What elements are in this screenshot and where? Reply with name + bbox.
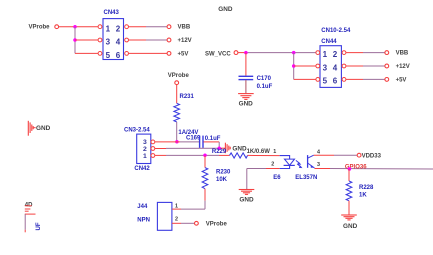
node GND (top label) — [218, 6, 233, 13]
wire SW_VCC to CN44 pin1 — [238, 52, 316, 54]
ground under R228 — [341, 215, 357, 230]
wire to CN44 pin5 — [294, 78, 316, 80]
wire J44 pin1 up to R230 — [172, 208, 205, 210]
svg-text:CN43: CN43 — [104, 10, 120, 16]
svg-text:CN42: CN42 — [134, 166, 150, 172]
wire vertical bus left of CN43 — [74, 27, 76, 54]
node VProbe (top left) — [29, 24, 59, 30]
node VProbe (middle) — [168, 73, 190, 84]
resistor R228 — [346, 181, 374, 201]
fragment 4D text — [25, 202, 33, 208]
svg-text:E6: E6 — [273, 175, 281, 181]
wire J44 pin2 to VProbe — [172, 222, 194, 224]
ground under E6 — [239, 190, 255, 204]
resistor R230 — [202, 156, 231, 210]
wire CN44 pin6 to +5V — [346, 78, 385, 80]
junction at 293.7,66 — [292, 64, 296, 68]
svg-text:VProbe: VProbe — [206, 222, 228, 228]
svg-text:5: 5 — [323, 77, 328, 86]
opto-coupler E6 : transistor side — [308, 155, 315, 168]
node +5V — [167, 51, 188, 57]
pin number 3 (E6) — [317, 162, 320, 168]
svg-text:VProbe: VProbe — [168, 73, 190, 79]
connector CN44 — [316, 28, 351, 87]
svg-text:2: 2 — [175, 217, 178, 223]
wire CN42 pin1 row to R229 — [155, 154, 230, 156]
svg-text:0.1uF: 0.1uF — [205, 136, 221, 142]
wire CN43 pin4 to +12V — [129, 39, 167, 41]
svg-text:GND: GND — [232, 145, 247, 152]
junction at 219.2,148.2 — [217, 146, 221, 150]
label E6 — [273, 175, 281, 181]
svg-text:3: 3 — [106, 38, 111, 47]
svg-text:SW_VCC: SW_VCC — [205, 52, 231, 58]
svg-text:4: 4 — [333, 63, 338, 72]
svg-text:R231: R231 — [180, 94, 195, 100]
label EL357N — [295, 175, 317, 181]
capacitor C170 — [239, 53, 273, 94]
wire R231 to junction — [176, 122, 178, 142]
svg-text:2: 2 — [143, 146, 147, 153]
svg-text:VProbe: VProbe — [29, 24, 51, 30]
svg-text:GND: GND — [36, 125, 51, 132]
junction at 75,40 — [73, 38, 77, 42]
wire CN43 pin6 to +5V — [129, 52, 167, 54]
svg-text:3: 3 — [317, 162, 320, 168]
svg-text:VBB: VBB — [396, 51, 409, 57]
junction at 293.7,52.6 — [292, 51, 296, 55]
svg-text:GND: GND — [343, 223, 358, 230]
wire CN44 pin4 to +12V — [346, 65, 385, 67]
node SW_VCC — [205, 51, 238, 58]
svg-text:J44: J44 — [137, 204, 148, 210]
wire CN42 pin3 to C169 — [155, 141, 199, 143]
node VDD33 — [357, 153, 381, 159]
svg-text:R230: R230 — [216, 169, 231, 175]
wire E6 pin4 to VDD33 — [314, 154, 357, 156]
svg-text:1: 1 — [175, 203, 178, 209]
svg-text:C169: C169 — [186, 135, 201, 141]
svg-text:UF: UF — [36, 222, 42, 230]
svg-text:VDD33: VDD33 — [362, 154, 382, 160]
junction at 205,155.5 — [203, 154, 207, 158]
wire vertical bus left of CN44 — [293, 53, 295, 80]
wire CN44 pin2 to VBB — [346, 52, 385, 54]
svg-text:+5V: +5V — [396, 77, 407, 83]
node VBB (right) — [385, 51, 409, 57]
node +5V (right) — [385, 77, 407, 83]
junction at 176.9,141.7 — [175, 140, 179, 144]
svg-text:2: 2 — [333, 50, 338, 59]
svg-text:+5V: +5V — [178, 51, 189, 57]
wire R228 to GND — [348, 201, 350, 215]
junction at 349.4,169 — [348, 167, 352, 171]
net label GPIO36 — [345, 165, 367, 171]
junction at 245.9,52.6 — [244, 51, 248, 55]
transistor J44 (NPN jumper block) — [137, 202, 172, 230]
svg-text:5: 5 — [106, 51, 111, 60]
pin numbers CN44 — [323, 50, 338, 86]
svg-text:6: 6 — [333, 77, 338, 86]
pin number 2 (J44) — [175, 217, 178, 223]
resistor R229 — [212, 149, 248, 158]
svg-text:1: 1 — [143, 153, 147, 160]
wire to CN44 pin3 — [294, 65, 316, 67]
wire CN43 pin2 to VBB — [129, 26, 167, 28]
node +12V (right) — [385, 64, 410, 70]
wire to CN43 pin3 — [75, 39, 98, 41]
svg-text:1K/0.6W: 1K/0.6W — [247, 149, 271, 155]
ground under C170 — [238, 94, 254, 108]
svg-text:R228: R228 — [359, 185, 374, 191]
svg-text:2: 2 — [116, 24, 121, 33]
node +12V — [167, 38, 192, 44]
svg-text:1K: 1K — [359, 193, 367, 199]
label 1K/0.6W — [247, 149, 271, 155]
svg-text:+12V: +12V — [396, 64, 410, 70]
svg-text:+12V: +12V — [178, 38, 192, 44]
connector CN42 — [124, 128, 155, 173]
svg-text:6: 6 — [116, 51, 121, 60]
resistor R231 — [174, 94, 195, 122]
pin number 4 (E6) — [317, 149, 320, 155]
svg-text:EL357N: EL357N — [295, 175, 317, 181]
svg-text:NPN: NPN — [137, 217, 150, 223]
wire VProbe down to R231 — [176, 85, 178, 104]
svg-text:CN3-2.54: CN3-2.54 — [124, 128, 150, 134]
svg-text:1: 1 — [323, 50, 328, 59]
svg-text:CN44: CN44 — [321, 39, 337, 45]
svg-text:VBB: VBB — [178, 25, 191, 31]
wire VProbe to CN43 pin1 — [59, 26, 98, 28]
label UF (rotated fragment) — [36, 222, 42, 230]
pin number 2 (E6) — [271, 161, 274, 167]
capacitor C169 — [186, 135, 221, 148]
label 1A/24V — [178, 130, 198, 136]
ground (left, pointing right) — [28, 121, 50, 136]
svg-text:GND: GND — [218, 6, 233, 13]
svg-text:GND: GND — [239, 101, 254, 108]
svg-text:GND: GND — [239, 197, 254, 204]
svg-text:1: 1 — [273, 149, 276, 155]
wire CN42 pin2 to GND — [155, 147, 225, 149]
wire R229 to opto pin1 — [248, 154, 280, 156]
svg-text:0.1uF: 0.1uF — [257, 84, 273, 90]
pin numbers CN43 — [106, 24, 121, 60]
svg-text:C170: C170 — [257, 76, 272, 82]
node VBB — [167, 25, 191, 31]
pin numbers CN42 — [143, 139, 147, 160]
svg-text:10K: 10K — [216, 177, 228, 183]
junction at 75,26.7 — [73, 25, 77, 29]
node VProbe (bottom) — [195, 221, 228, 227]
connector CN43 — [98, 10, 128, 59]
pin number 1 (E6) — [273, 149, 276, 155]
svg-text:4: 4 — [116, 38, 121, 47]
wire C169 to GND branch — [204, 142, 220, 148]
pin number 1 (J44) — [175, 203, 178, 209]
ground (mid, pointing right) — [225, 143, 247, 154]
wire to CN43 pin5 — [75, 52, 98, 54]
svg-text:R229: R229 — [212, 149, 227, 155]
ground fragment (bottom left) — [25, 206, 36, 214]
opto-coupler E6 EL357N : LED side — [280, 156, 303, 169]
svg-text:4: 4 — [317, 149, 320, 155]
wire E6 pin3 / GPIO36 net — [315, 168, 433, 171]
wire E6 pin2 to GND — [247, 169, 280, 190]
wire fragment (bottom left) — [24, 214, 26, 232]
svg-text:CN10-2.54: CN10-2.54 — [321, 28, 351, 34]
svg-text:2: 2 — [271, 161, 274, 167]
svg-text:1: 1 — [106, 24, 111, 33]
svg-text:3: 3 — [323, 63, 328, 72]
wire junction to R228 — [348, 169, 350, 181]
